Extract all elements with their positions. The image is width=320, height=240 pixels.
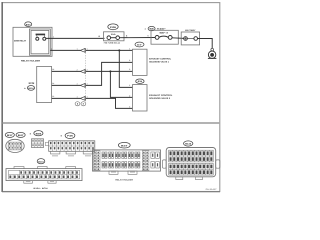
svg-text:SOLENOID VALVE 1: SOLENOID VALVE 1: [149, 61, 170, 64]
svg-text:35: 35: [52, 68, 54, 71]
dashed connector line: [84, 53, 86, 102]
connector view: relay holder socket (round): [6, 139, 24, 152]
svg-text:3: 3: [129, 105, 130, 108]
connector label oval F45: [65, 133, 75, 139]
fuse F14 15A (in fuse box): [104, 32, 125, 41]
ground (body ground symbol): [208, 48, 217, 58]
wire arrow1 to node, to solenoid box 1 pin1: [86, 49, 133, 51]
connector view: main harness (right, rounded): [163, 148, 220, 180]
svg-text:34: 34: [52, 82, 54, 85]
wire SBF to battery: [172, 37, 184, 40]
svg-text:SBF-3: SBF-3: [159, 32, 169, 35]
connector view: ECM (long, bottom-left): [6, 167, 82, 184]
connector label oval B37 (main relay): [25, 22, 32, 27]
connector label oval box2: [136, 79, 144, 83]
svg-text:B134: B134: [185, 143, 192, 146]
wire branch down to box2 pin2: [110, 71, 132, 97]
inline connector arrow 2: [77, 69, 88, 74]
svg-text:33: 33: [52, 95, 54, 98]
solenoid valve box 2: [133, 85, 148, 111]
svg-text:EXHAUST CONTROL: EXHAUST CONTROL: [149, 94, 173, 97]
wire ECM pin1 through arrow2 to box1 pin3: [52, 70, 81, 72]
junction node power: [118, 49, 120, 51]
svg-text:RELAY HOLDER: RELAY HOLDER: [115, 179, 133, 182]
SBF-3 slow blow fuse holder: [151, 30, 178, 44]
svg-text:SOLENOID VALVE 2: SOLENOID VALVE 2: [149, 97, 171, 100]
wire ECM pin3 through arrow4 down to box2 pin3: [52, 97, 81, 99]
svg-text:EXHAUST CONTROL: EXHAUST CONTROL: [149, 58, 172, 61]
svg-text:1: 1: [77, 48, 78, 51]
connector pair ovals below arrows: [75, 102, 86, 106]
wire battery to ground: [198, 39, 213, 49]
relay K1 (main relay, double box): [30, 29, 51, 55]
connector label oval B37: [5, 132, 14, 137]
svg-text:RELAY HOLDER: RELAY HOLDER: [21, 60, 41, 63]
svg-text:2: 2: [129, 95, 130, 98]
inline connector arrow 4: [77, 96, 88, 101]
svg-text:15: 15: [98, 35, 100, 38]
svg-text:3: 3: [129, 68, 130, 71]
svg-text:1: 1: [129, 48, 130, 51]
wire relay output (power feed): [50, 49, 80, 51]
svg-text:2: 2: [129, 59, 130, 62]
battery: [181, 29, 199, 45]
connector view: small 8-pin: [32, 139, 44, 148]
wire relay to fuse: [46, 37, 105, 39]
svg-text:15A: 15A: [111, 33, 116, 36]
svg-text:2: 2: [51, 47, 52, 50]
svg-text:∗: ∗: [60, 134, 62, 137]
connector view: fuse box connector (wide): [45, 141, 94, 156]
connector label oval (fuse F/B): [108, 24, 118, 30]
solenoid valve box 1: [133, 49, 148, 75]
svg-text:5: 5: [148, 34, 149, 37]
inline connector arrow 3: [77, 83, 88, 88]
junction node: [109, 70, 111, 72]
connector label oval B134b: [184, 141, 193, 146]
svg-text:MAIN RELAY: MAIN RELAY: [14, 40, 27, 43]
svg-text:∗: ∗: [24, 87, 26, 90]
connector label oval B134 (ECM): [37, 159, 45, 164]
connector label oval B37c: [118, 142, 130, 148]
svg-text:B134 : ECM: B134 : ECM: [34, 187, 49, 190]
ECM box: [37, 66, 52, 102]
svg-text:F/B: F/B: [110, 26, 117, 29]
svg-text:∗: ∗: [29, 132, 31, 135]
svg-text:F/B FUSE NO.14: F/B FUSE NO.14: [104, 41, 121, 44]
connector label oval B35: [34, 131, 43, 136]
connector view: relay holder (bottom view): [93, 150, 161, 174]
svg-text:1: 1: [53, 36, 54, 39]
section separator: [3, 122, 221, 124]
svg-text:FA-21417: FA-21417: [206, 188, 218, 191]
connector label oval B47: [16, 132, 25, 137]
wire ECM pin2 through arrow3 up to box1 pin2: [52, 84, 81, 86]
wire power branch down to solenoid box 2 pin1: [119, 50, 132, 87]
connector label oval box1: [135, 42, 144, 47]
inline connector arrow 1: [77, 48, 88, 53]
svg-text:ECM: ECM: [29, 82, 35, 85]
relay holder box: [13, 27, 52, 56]
svg-text:1: 1: [129, 84, 130, 87]
wire fuse to SBF: [120, 37, 156, 39]
